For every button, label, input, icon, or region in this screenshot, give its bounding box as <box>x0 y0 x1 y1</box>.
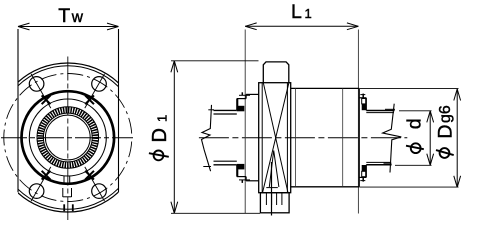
svg-text:1: 1 <box>305 6 312 21</box>
svg-text:d: d <box>404 118 426 129</box>
svg-text:D: D <box>434 125 456 139</box>
svg-text:w: w <box>71 9 84 26</box>
svg-text:1: 1 <box>155 115 170 122</box>
svg-text:g6: g6 <box>437 105 454 123</box>
svg-text:L: L <box>291 1 302 23</box>
svg-text:D: D <box>149 128 171 142</box>
svg-text:T: T <box>58 5 70 27</box>
